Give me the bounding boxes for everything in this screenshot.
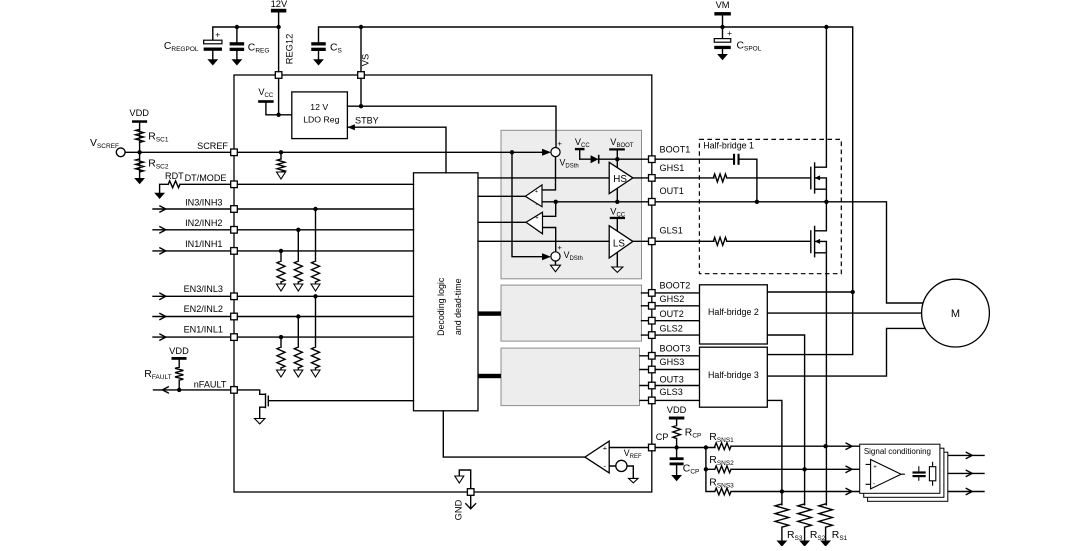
svg-text:+: + [727,28,732,38]
svg-text:OUT2: OUT2 [660,309,684,319]
svg-text:GHS3: GHS3 [660,357,685,367]
svg-text:-: - [873,481,875,488]
svg-text:VDD: VDD [667,405,687,415]
svg-text:Half-bridge 2: Half-bridge 2 [708,307,759,317]
svg-text:BOOT2: BOOT2 [660,281,691,291]
svg-text:+: + [558,139,563,148]
svg-text:GLS2: GLS2 [660,323,683,333]
svg-text:IN2/INH2: IN2/INH2 [185,218,222,228]
svg-text:IN3/INH3: IN3/INH3 [185,197,222,207]
svg-text:OUT3: OUT3 [660,374,684,384]
svg-text:IN1/INH1: IN1/INH1 [185,239,222,249]
svg-text:STBY: STBY [355,116,379,126]
svg-text:-: - [536,228,538,234]
svg-text:REG12: REG12 [284,34,294,65]
svg-text:+: + [558,243,563,252]
svg-text:VM: VM [716,0,730,10]
svg-text:GHS1: GHS1 [660,163,685,173]
svg-text:CP: CP [656,432,669,442]
svg-text:-: - [536,202,538,208]
svg-text:LDO Reg: LDO Reg [303,115,339,125]
svg-text:GHS2: GHS2 [660,294,685,304]
svg-text:+: + [535,189,538,195]
svg-text:VS: VS [361,54,371,66]
svg-text:nFAULT: nFAULT [194,379,227,389]
svg-text:LS: LS [613,238,625,249]
svg-text:VDD: VDD [129,108,149,118]
svg-text:GND: GND [454,499,464,520]
svg-text:EN2/INL2: EN2/INL2 [184,304,223,314]
svg-text:OUT1: OUT1 [660,186,684,196]
svg-text:+: + [535,215,538,221]
svg-text:Decoding logic: Decoding logic [436,277,446,336]
svg-text:BOOT3: BOOT3 [660,343,691,353]
svg-text:M: M [951,308,960,320]
svg-text:DT/MODE: DT/MODE [185,173,227,183]
svg-text:RDT: RDT [165,171,184,181]
svg-text:HS: HS [613,174,627,185]
svg-text:BOOT1: BOOT1 [660,145,691,155]
svg-text:SCREF: SCREF [197,141,228,151]
svg-text:12 V: 12 V [310,102,328,112]
svg-text:Half-bridge 1: Half-bridge 1 [703,141,754,151]
svg-text:VDD: VDD [169,346,189,356]
svg-text:EN3/INL3: EN3/INL3 [184,284,223,294]
svg-text:GLS3: GLS3 [660,387,683,397]
svg-text:Signal conditioning: Signal conditioning [864,447,931,456]
svg-text:+: + [215,29,220,39]
svg-text:+: + [873,465,877,471]
svg-text:+: + [603,443,608,452]
svg-text:EN1/INL1: EN1/INL1 [184,325,223,335]
svg-text:-: - [603,461,606,470]
svg-text:GLS1: GLS1 [660,225,683,235]
svg-text:and dead-time: and dead-time [453,278,463,335]
svg-text:Half-bridge 3: Half-bridge 3 [708,370,759,380]
svg-text:12V: 12V [271,0,288,9]
